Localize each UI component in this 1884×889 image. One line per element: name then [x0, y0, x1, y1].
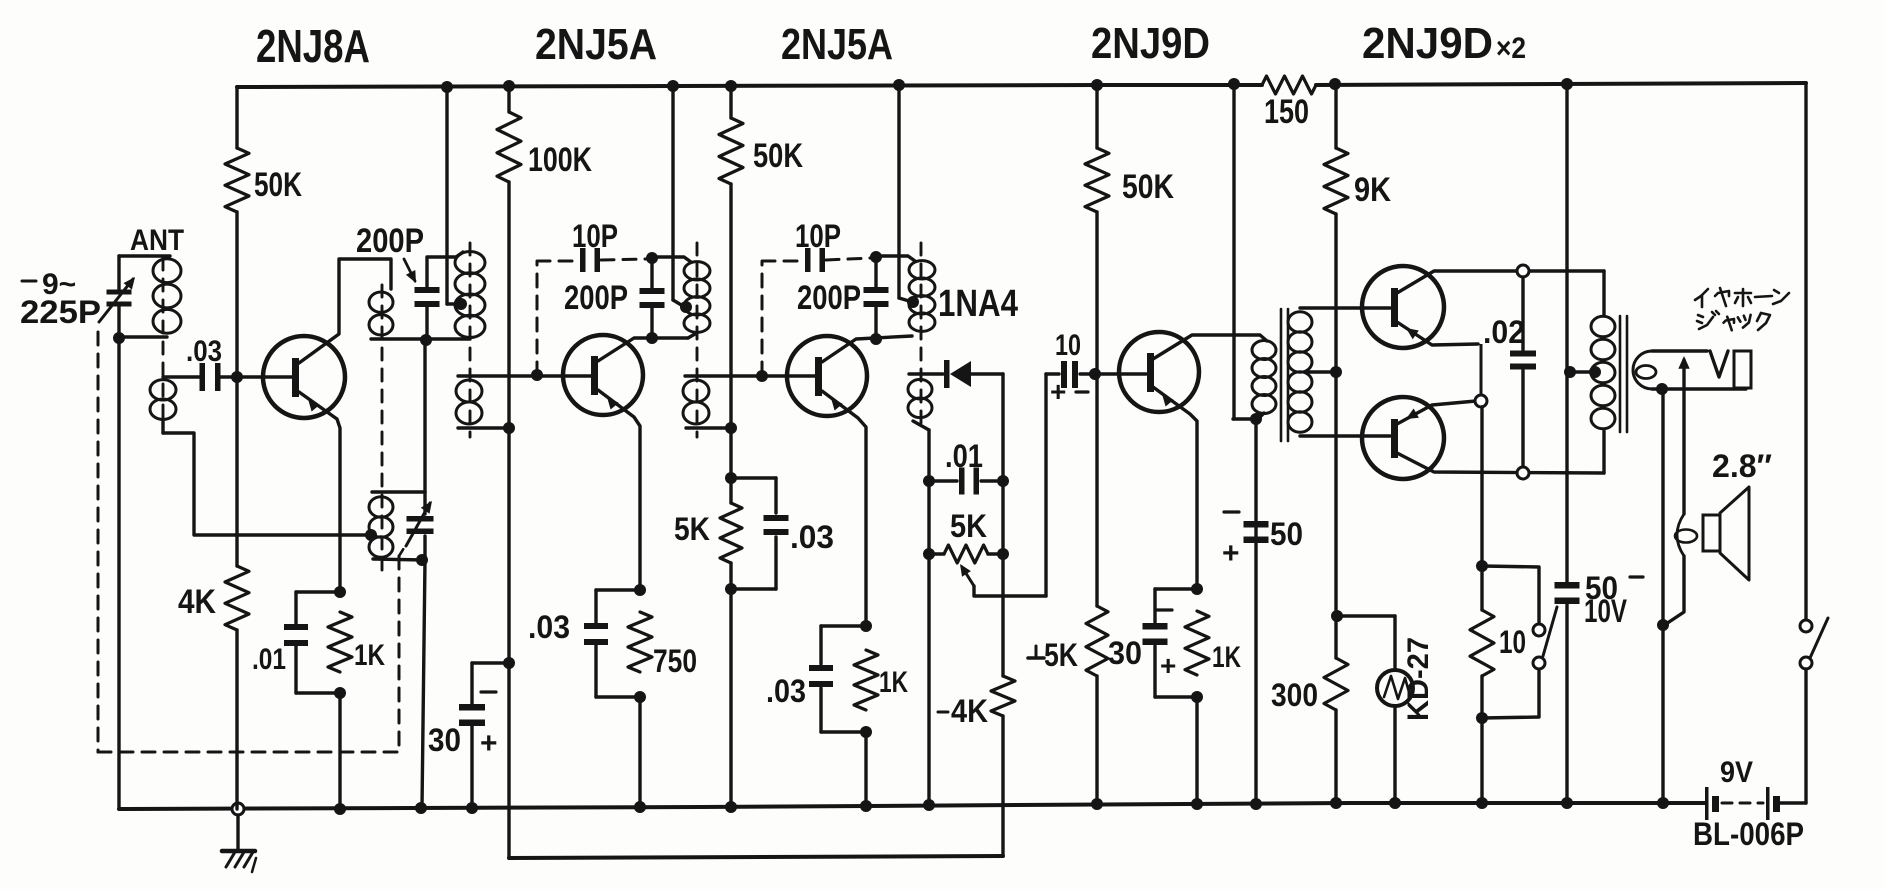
- svg-text:.01: .01: [945, 438, 983, 474]
- svg-text:750: 750: [653, 643, 697, 679]
- svg-text:+: +: [1050, 376, 1066, 407]
- svg-text:200P: 200P: [356, 222, 424, 260]
- svg-text:300: 300: [1271, 677, 1318, 713]
- svg-text:10: 10: [1055, 329, 1081, 362]
- svg-text:+: +: [480, 727, 498, 760]
- svg-text:200P: 200P: [564, 279, 628, 317]
- svg-text:50K: 50K: [254, 166, 302, 204]
- svg-text:5K: 5K: [674, 511, 710, 547]
- svg-text:KD-27: KD-27: [1402, 637, 1435, 721]
- svg-text:200P: 200P: [797, 279, 861, 317]
- svg-text:2.8″: 2.8″: [1712, 448, 1772, 484]
- svg-text:.02: .02: [1483, 314, 1525, 350]
- svg-text:30: 30: [1108, 635, 1142, 671]
- svg-text:10P: 10P: [795, 218, 841, 254]
- svg-text:1K: 1K: [879, 666, 908, 699]
- svg-text:2NJ5A: 2NJ5A: [535, 20, 657, 69]
- svg-text:30: 30: [428, 722, 461, 758]
- svg-text:BL-006P: BL-006P: [1693, 816, 1804, 852]
- svg-text:100K: 100K: [528, 141, 592, 179]
- svg-text:1K: 1K: [1212, 641, 1241, 674]
- svg-text:+: +: [1222, 537, 1240, 570]
- svg-text:5K: 5K: [950, 508, 987, 544]
- svg-text:9K: 9K: [1354, 171, 1391, 209]
- svg-text:ANT: ANT: [130, 224, 184, 257]
- svg-text:×2: ×2: [1496, 32, 1526, 65]
- svg-text:+: +: [1160, 650, 1176, 681]
- svg-text:10: 10: [1499, 624, 1526, 660]
- svg-text:4K: 4K: [951, 693, 988, 729]
- svg-text:2NJ5A: 2NJ5A: [781, 20, 893, 69]
- svg-text:1K: 1K: [354, 639, 385, 672]
- svg-text:5K: 5K: [1044, 637, 1078, 673]
- svg-text:150: 150: [1264, 93, 1309, 131]
- svg-text:9V: 9V: [1720, 756, 1753, 789]
- svg-text:10V: 10V: [1584, 593, 1627, 629]
- svg-text:.03: .03: [528, 609, 570, 645]
- svg-text:.03: .03: [790, 519, 834, 555]
- svg-text:.03: .03: [186, 335, 222, 368]
- svg-text:50K: 50K: [1122, 168, 1174, 206]
- svg-text:2NJ8A: 2NJ8A: [256, 20, 370, 72]
- svg-text:50K: 50K: [753, 137, 803, 175]
- svg-text:50: 50: [1270, 516, 1303, 552]
- svg-text:.03: .03: [766, 673, 806, 709]
- svg-text:225P: 225P: [20, 294, 101, 330]
- svg-text:1NA4: 1NA4: [938, 283, 1018, 325]
- svg-text:2NJ9D: 2NJ9D: [1091, 19, 1210, 68]
- svg-text:10P: 10P: [572, 218, 618, 254]
- svg-text:2NJ9D: 2NJ9D: [1362, 19, 1493, 68]
- svg-text:4K: 4K: [178, 583, 216, 621]
- svg-text:.01: .01: [252, 643, 286, 676]
